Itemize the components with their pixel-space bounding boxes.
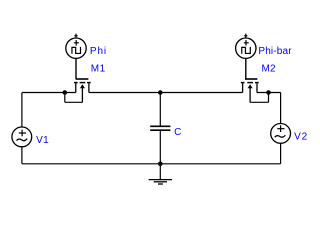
wire M1 drain to M2 source [89,92,243,94]
label M1 [91,63,106,74]
wire V1 to M1 source [22,93,76,128]
pulse source Phi-bar [236,34,256,79]
pulse source Phi [66,34,86,79]
wire M2 bulk to node C [250,93,268,103]
label M2 [261,63,276,74]
ground [149,180,173,184]
svg-text:Phi-bar: Phi-bar [258,46,292,57]
label Phi [90,46,107,57]
wire bottom rail [22,163,281,165]
svg-text:Phi: Phi [90,46,107,57]
svg-text:C: C [174,127,181,138]
wire V2 bottom [280,143,282,164]
svg-text:M1: M1 [91,63,106,74]
node D junction dot (ground) [158,162,163,167]
transistor M1 [74,79,91,102]
svg-text:V1: V1 [36,135,49,146]
label V2 [294,131,308,142]
label Phi-bar [258,46,292,57]
svg-text:M2: M2 [261,63,276,74]
wire M2 drain to V2 [257,93,281,124]
wire M1 bulk to node A [65,93,83,103]
wire V1 bottom [21,147,23,164]
svg-text:V2: V2 [294,131,308,142]
voltage source V2 [271,123,291,143]
label V1 [36,135,49,146]
node B junction dot (capacitor top) [158,90,163,95]
capacitor C [150,93,170,180]
node A junction dot [63,90,68,95]
voltage source V1 [12,127,32,147]
transistor M2 [241,79,259,102]
label C [174,127,181,138]
node C junction dot [266,90,271,95]
